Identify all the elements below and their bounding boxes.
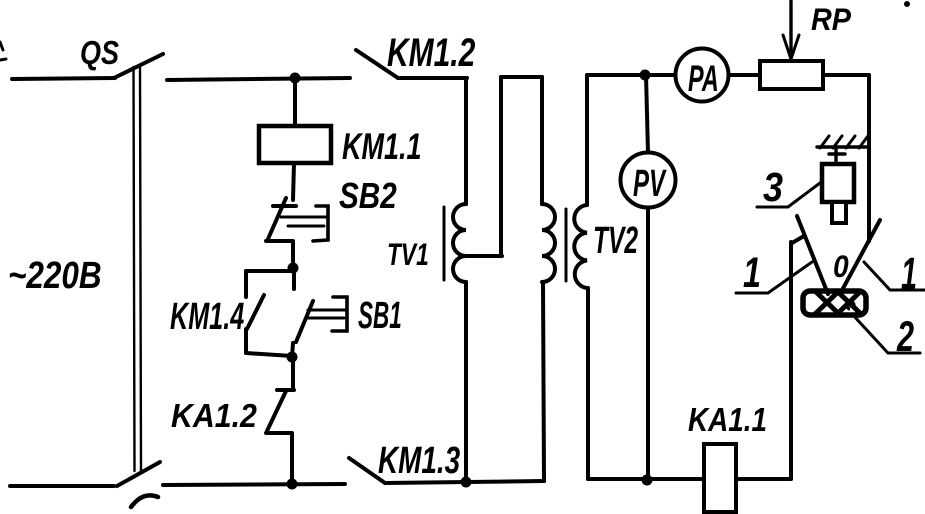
svg-text:PA: PA xyxy=(688,58,719,100)
svg-text:3: 3 xyxy=(763,165,783,211)
svg-text:PV: PV xyxy=(633,161,667,204)
svg-text:KA1.1: KA1.1 xyxy=(688,402,767,439)
svg-text:KM1.2: KM1.2 xyxy=(387,31,476,75)
svg-text:~220B: ~220B xyxy=(8,254,102,297)
svg-text:0: 0 xyxy=(833,250,849,285)
svg-text:QS: QS xyxy=(80,36,119,72)
svg-text:KM1.1: KM1.1 xyxy=(342,126,422,167)
svg-text:TV2: TV2 xyxy=(593,218,638,261)
svg-text:2: 2 xyxy=(896,312,914,360)
svg-text:1: 1 xyxy=(901,250,917,300)
svg-text:KM1.4: KM1.4 xyxy=(170,295,244,338)
svg-text:SB2: SB2 xyxy=(339,175,397,215)
svg-text:KM1.3: KM1.3 xyxy=(378,440,460,482)
svg-text:1: 1 xyxy=(743,250,761,297)
svg-text:RP: RP xyxy=(811,3,852,37)
svg-text:KA1.2: KA1.2 xyxy=(171,397,257,435)
svg-text:SB1: SB1 xyxy=(358,294,402,337)
svg-text:TV1: TV1 xyxy=(387,236,429,272)
